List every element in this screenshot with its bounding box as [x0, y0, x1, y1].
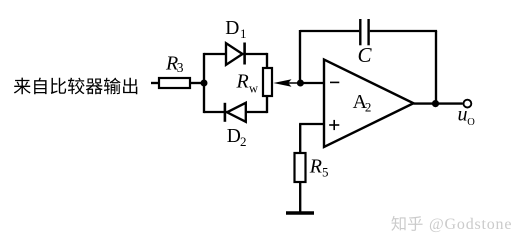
output terminal circle [464, 100, 472, 108]
wire bottom loop [204, 111, 267, 113]
wire right loop bottom [266, 96, 268, 113]
wire left loop vertical [203, 53, 205, 113]
svg-text:3: 3 [177, 60, 184, 75]
svg-text:C: C [358, 43, 373, 67]
op-amp minus pin [330, 81, 339, 83]
label D2 [227, 126, 247, 149]
svg-text:2: 2 [365, 100, 372, 115]
label R3 [165, 52, 184, 74]
node A junction dot [201, 80, 208, 87]
svg-text:u: u [458, 104, 468, 126]
wire input stub [151, 82, 159, 84]
svg-text:1: 1 [240, 26, 247, 41]
resistor R3 [159, 78, 190, 88]
svg-text:R: R [236, 71, 249, 93]
svg-text:R: R [309, 155, 322, 177]
potentiometer Rw [263, 68, 272, 96]
ground [286, 211, 314, 215]
wire right loop top [266, 53, 268, 68]
wire feedback vertical right [435, 31, 437, 104]
op-amp A2 [324, 60, 414, 148]
wire feedback top right segment [370, 30, 437, 32]
wire plus input down to R5 [299, 124, 301, 153]
diode D2 [225, 103, 246, 122]
watermark 知乎 @Godstone [391, 216, 512, 233]
label R5 [309, 155, 329, 179]
svg-text:@Godstone: @Godstone [429, 216, 512, 233]
label D1 [225, 18, 246, 41]
wire node B to op-amp minus input [300, 82, 324, 84]
wire R3 to node A [190, 82, 204, 84]
svg-text:w: w [249, 82, 258, 96]
node B junction dot [297, 80, 304, 87]
wire output [414, 102, 463, 104]
wire top loop [204, 53, 267, 55]
wire feedback top left segment [300, 30, 359, 32]
wire R5 to ground [299, 182, 301, 212]
label uO [458, 104, 476, 128]
diode D1 [226, 43, 245, 65]
node C output junction dot [432, 100, 439, 107]
wire feedback vertical left [299, 30, 301, 83]
input label 来自比较器输出 [14, 78, 137, 95]
capacitor C [360, 19, 368, 45]
label A2 [353, 91, 372, 115]
label Rw [236, 71, 259, 96]
op-amp plus pin [329, 120, 339, 130]
potentiometer wiper arrow [273, 79, 300, 87]
resistor R5 [295, 153, 306, 182]
svg-text:2: 2 [240, 134, 247, 149]
svg-text:D: D [227, 126, 241, 147]
wire op-amp plus input [299, 123, 324, 125]
svg-text:D: D [225, 18, 239, 39]
svg-text:O: O [467, 117, 475, 128]
svg-text:5: 5 [322, 165, 329, 180]
